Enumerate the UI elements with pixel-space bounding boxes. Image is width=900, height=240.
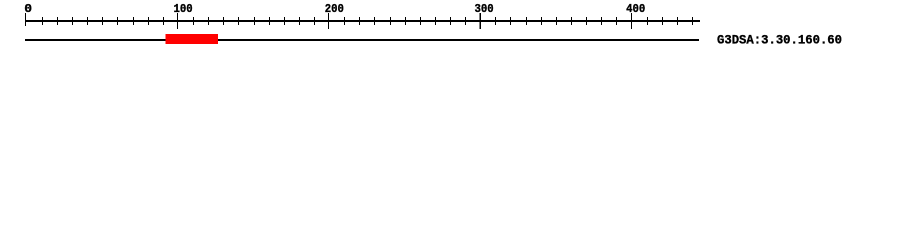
minor tick 80 <box>148 17 149 25</box>
minor tick 30 <box>72 17 73 25</box>
minor tick 380 <box>601 17 602 25</box>
minor tick 240 <box>390 17 391 25</box>
minor tick 220 <box>359 17 360 25</box>
minor tick 110 <box>193 17 194 25</box>
minor tick 60 <box>117 17 118 25</box>
svg-text:0: 0 <box>24 2 32 16</box>
minor tick 290 <box>465 17 466 25</box>
minor tick 360 <box>571 17 572 25</box>
minor tick 330 <box>526 17 527 25</box>
minor tick 190 <box>314 17 315 25</box>
major tick 100 <box>177 13 178 29</box>
minor tick 320 <box>510 17 511 25</box>
ruler line <box>25 20 700 22</box>
svg-text:300: 300 <box>475 2 494 16</box>
minor tick 90 <box>163 17 164 25</box>
minor tick 150 <box>254 17 255 25</box>
minor tick 210 <box>344 17 345 25</box>
minor tick 280 <box>450 17 451 25</box>
minor tick 260 <box>420 17 421 25</box>
minor tick 310 <box>495 17 496 25</box>
svg-text:200: 200 <box>325 2 344 16</box>
minor tick 160 <box>269 17 270 25</box>
minor tick 140 <box>238 17 239 25</box>
minor tick 40 <box>87 17 88 25</box>
minor tick 130 <box>223 17 224 25</box>
minor tick 410 <box>647 17 648 25</box>
minor tick 390 <box>616 17 617 25</box>
major tick 200 <box>328 13 329 29</box>
minor tick 420 <box>662 17 663 25</box>
minor tick 340 <box>541 17 542 25</box>
minor tick 50 <box>102 17 103 25</box>
minor tick 10 <box>42 17 43 25</box>
sequence line <box>25 39 699 41</box>
major tick 400 <box>631 13 632 29</box>
minor tick 180 <box>299 17 300 25</box>
svg-text:G3DSA:3.30.160.60: G3DSA:3.30.160.60 <box>717 33 842 48</box>
major tick 0 <box>25 13 26 26</box>
minor tick 270 <box>435 17 436 25</box>
svg-text:400: 400 <box>626 2 645 16</box>
major tick 300 <box>480 13 481 29</box>
minor tick 20 <box>57 17 58 25</box>
minor tick 230 <box>374 17 375 25</box>
minor tick 370 <box>586 17 587 25</box>
minor tick 120 <box>208 17 209 25</box>
minor tick 350 <box>556 17 557 25</box>
minor tick 430 <box>677 17 678 25</box>
minor tick 70 <box>133 17 134 25</box>
minor tick 250 <box>405 17 406 25</box>
minor tick 170 <box>284 17 285 25</box>
domain box G3DSA:3.30.160.60 (red) <box>166 34 219 44</box>
minor tick 440 <box>692 17 693 25</box>
svg-text:100: 100 <box>174 2 193 16</box>
